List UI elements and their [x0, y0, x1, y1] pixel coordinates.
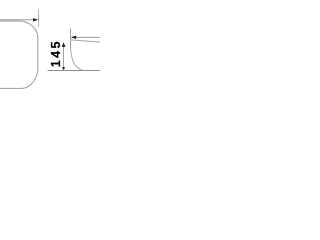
width dimension arrowhead (points right): [33, 18, 38, 21]
height dimension line (145): [63, 44, 65, 70]
depth dimension arrowhead (points left): [71, 36, 76, 39]
side view front/extension vertical line: [70, 29, 72, 48]
height arrowhead up: [62, 42, 66, 47]
height arrowhead down: [62, 67, 65, 70]
width dimension line (top, cut off at left): [0, 19, 35, 21]
side view rim top edge: [71, 40, 100, 42]
svg-text:145: 145: [49, 39, 63, 67]
extension line (right edge of top view): [38, 10, 40, 28]
basin top view outline (rounded square, cut off at left edge): [0, 21, 38, 88]
side view front curve: [71, 48, 83, 71]
depth dimension line (right, cut off): [72, 36, 100, 38]
ground line: [48, 70, 101, 72]
